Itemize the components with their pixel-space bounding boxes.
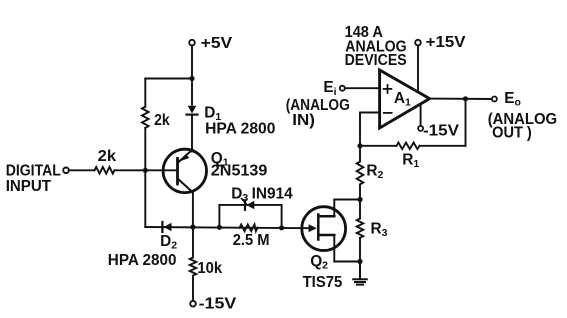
label (ANALOG IN) [286, 97, 350, 129]
DIGITAL INPUT terminal [63, 168, 69, 174]
svg-text:D3IN914: D3IN914 [231, 185, 293, 204]
resistor R1 [397, 143, 420, 150]
diode D2 [162, 222, 171, 232]
resistor R2 [357, 162, 364, 185]
svg-text:2k: 2k [154, 112, 170, 129]
wire D3 box left edge [218, 205, 220, 227]
op-amp A1 [380, 70, 430, 128]
wire +5V down to Q1 collector branch [191, 46, 193, 105]
wire Q2 drain to R2/R3 node [334, 199, 360, 201]
wire -15V from op-amp [420, 104, 422, 126]
svg-text:+15V: +15V [426, 34, 467, 51]
terminal -15V bottom [190, 301, 196, 307]
node base junction [143, 168, 148, 173]
svg-text:TIS75: TIS75 [303, 274, 343, 291]
svg-text:-15V: -15V [199, 295, 238, 312]
terminal Ei [340, 86, 345, 91]
node Q1 emitter junction [190, 224, 195, 229]
resistor 2k (horizontal) [95, 167, 115, 174]
wire minus input [360, 112, 380, 114]
wire R3 to ground node [359, 238, 361, 262]
transistor Q2 [302, 200, 346, 262]
op-amp minus input marking [384, 112, 392, 114]
svg-text:2N5139: 2N5139 [211, 162, 268, 179]
wire R1 row [420, 145, 466, 147]
wire 2k to Q1 base [115, 169, 178, 171]
diode D1 [187, 106, 198, 115]
node 2.5M right junction [279, 225, 284, 230]
resistor 2k (vertical) [142, 107, 149, 128]
resistor 2.5M [240, 225, 258, 232]
svg-text:DIGITAL: DIGITAL [6, 162, 61, 179]
wire output down to R1 [465, 99, 467, 146]
transistor Q1 [163, 149, 206, 192]
terminal +15V [415, 40, 421, 46]
resistor R3 [357, 219, 364, 238]
node 2.5M left junction [217, 225, 222, 230]
svg-text:DEVICES: DEVICES [345, 52, 407, 69]
diode D3 [242, 199, 255, 210]
wire output [430, 98, 492, 100]
wire feedback vertical [359, 113, 361, 162]
wire D3 box right edge [281, 205, 283, 228]
wire Q1 emitter down [192, 192, 194, 228]
svg-text:HPA 2800: HPA 2800 [108, 252, 177, 269]
terminal -15V mid [418, 126, 423, 131]
wire Ei to plus input [345, 87, 380, 89]
svg-text:-15V: -15V [423, 122, 460, 139]
ground [353, 262, 367, 285]
svg-text:10k: 10k [197, 260, 222, 277]
svg-text:IN): IN) [292, 112, 315, 129]
svg-text:HPA 2800: HPA 2800 [205, 121, 275, 138]
svg-text:INPUT: INPUT [6, 178, 52, 195]
wire Q2 source to ground node [334, 261, 360, 263]
node +5V junction [189, 76, 194, 81]
label (ANALOG OUT) [488, 111, 557, 141]
svg-text:2.5 M: 2.5 M [233, 232, 270, 249]
wire R2 to drain node [359, 184, 361, 218]
wire left vertical branch down to 2k resistor [144, 79, 146, 107]
wire bottom row with D2 to 2.5M to Q2 gate [145, 227, 310, 228]
node source/ground junction [357, 259, 362, 264]
label DIGITAL INPUT [6, 162, 61, 195]
op-amp plus input marking [384, 85, 392, 93]
node R1 tap junction [357, 143, 362, 148]
terminal Eo [492, 97, 497, 102]
wire 2k bottom down to D2 row [144, 128, 146, 227]
wire D3 box top [219, 204, 281, 206]
svg-text:+5V: +5V [201, 35, 233, 52]
svg-text:OUT ): OUT ) [492, 124, 532, 141]
resistor 10k [190, 230, 197, 301]
label 148A ANALOG DEVICES [345, 24, 407, 69]
+5V terminal [189, 40, 195, 46]
wire DIGITAL INPUT to 2k [69, 169, 95, 171]
node drain junction [357, 197, 362, 202]
svg-text:2k: 2k [98, 148, 117, 165]
wire +15V to op-amp [417, 45, 419, 91]
wire horizontal at top to 2k branch [145, 78, 192, 80]
node output junction [463, 96, 468, 101]
